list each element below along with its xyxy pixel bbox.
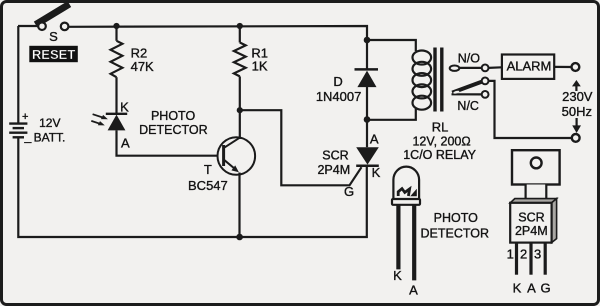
svg-text:+: + [22,111,28,123]
svg-text:RESET: RESET [32,47,75,62]
svg-text:230V: 230V [562,89,593,104]
svg-text:1: 1 [507,247,514,262]
svg-text:BC547: BC547 [188,178,228,193]
svg-text:1N4007: 1N4007 [316,89,362,104]
svg-text:SCR: SCR [322,149,348,163]
svg-text:50Hz: 50Hz [562,104,592,119]
svg-text:12V: 12V [39,116,60,130]
svg-text:K: K [513,280,522,295]
svg-text:A: A [370,132,379,147]
svg-text:T: T [204,162,212,177]
svg-text:A: A [121,136,130,151]
svg-text:A: A [527,280,536,295]
svg-text:G: G [344,184,354,199]
svg-text:BATT.: BATT. [34,130,66,144]
svg-text:N/C: N/C [457,99,479,113]
svg-text:G: G [541,280,551,295]
svg-text:PHOTO: PHOTO [434,211,478,225]
svg-text:2P4M: 2P4M [317,163,350,177]
svg-text:K: K [120,99,129,114]
svg-text:3: 3 [534,247,541,262]
svg-text:2P4M: 2P4M [515,224,548,238]
svg-text:2: 2 [520,247,527,262]
svg-text:DETECTOR: DETECTOR [421,227,490,241]
svg-text:N/O: N/O [458,52,481,66]
svg-text:SCR: SCR [518,210,544,224]
svg-text:K: K [393,268,402,283]
svg-text:12V, 200Ω: 12V, 200Ω [412,134,470,148]
svg-text:–: – [24,134,32,149]
svg-text:D: D [333,74,342,89]
svg-text:DETECTOR: DETECTOR [139,123,208,137]
svg-text:S: S [49,29,58,44]
svg-text:ALARM: ALARM [507,58,552,73]
svg-text:A: A [409,283,418,298]
svg-text:K: K [372,165,381,180]
svg-text:1C/O RELAY: 1C/O RELAY [403,148,476,162]
svg-text:1K: 1K [252,58,268,73]
svg-text:PHOTO: PHOTO [151,109,195,123]
svg-text:47K: 47K [131,59,154,74]
svg-text:RL: RL [432,120,449,135]
